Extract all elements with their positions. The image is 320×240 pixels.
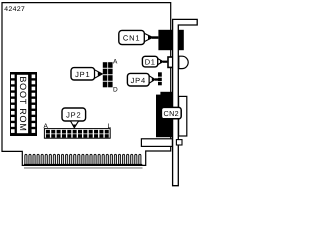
board outline [2,3,171,166]
jumper JP4 pins [158,72,162,85]
card edge shadow line [24,167,143,169]
connector CN1 [158,30,183,50]
CN2 bottom flange [141,139,172,147]
svg-text:42427: 42427 [4,6,25,14]
connector CN2 body [156,92,173,137]
svg-text:D1: D1 [145,57,156,66]
connector CN2 label [161,107,181,118]
callout JP1 [71,68,103,80]
svg-text:BOOT ROM: BOOT ROM [18,76,28,131]
callout CN1 [119,30,159,44]
svg-text:JP2: JP2 [66,111,81,120]
diode D1 dome [179,56,188,68]
svg-text:JP4: JP4 [131,76,146,85]
boot rom center strip [16,74,28,133]
svg-text:CN1: CN1 [123,34,140,43]
card edge connector fingers [24,154,142,165]
bracket tab [176,140,182,145]
external connector shell [179,96,187,136]
callout JP4 [127,73,158,86]
svg-text:D: D [113,87,118,94]
boot rom pins [11,75,35,133]
callout JP2 [62,108,86,129]
boot rom chip body [10,72,37,136]
svg-text:A: A [113,59,118,66]
svg-text:JP1: JP1 [75,70,90,79]
diode D1 body [168,57,176,67]
jumper JP2 header [44,129,110,139]
jumper JP1 header [103,62,113,87]
svg-text:A: A [44,123,49,130]
callout D1 [142,56,167,67]
svg-text:CN2: CN2 [164,109,180,118]
mounting bracket [173,19,198,185]
svg-text:L: L [108,123,112,130]
